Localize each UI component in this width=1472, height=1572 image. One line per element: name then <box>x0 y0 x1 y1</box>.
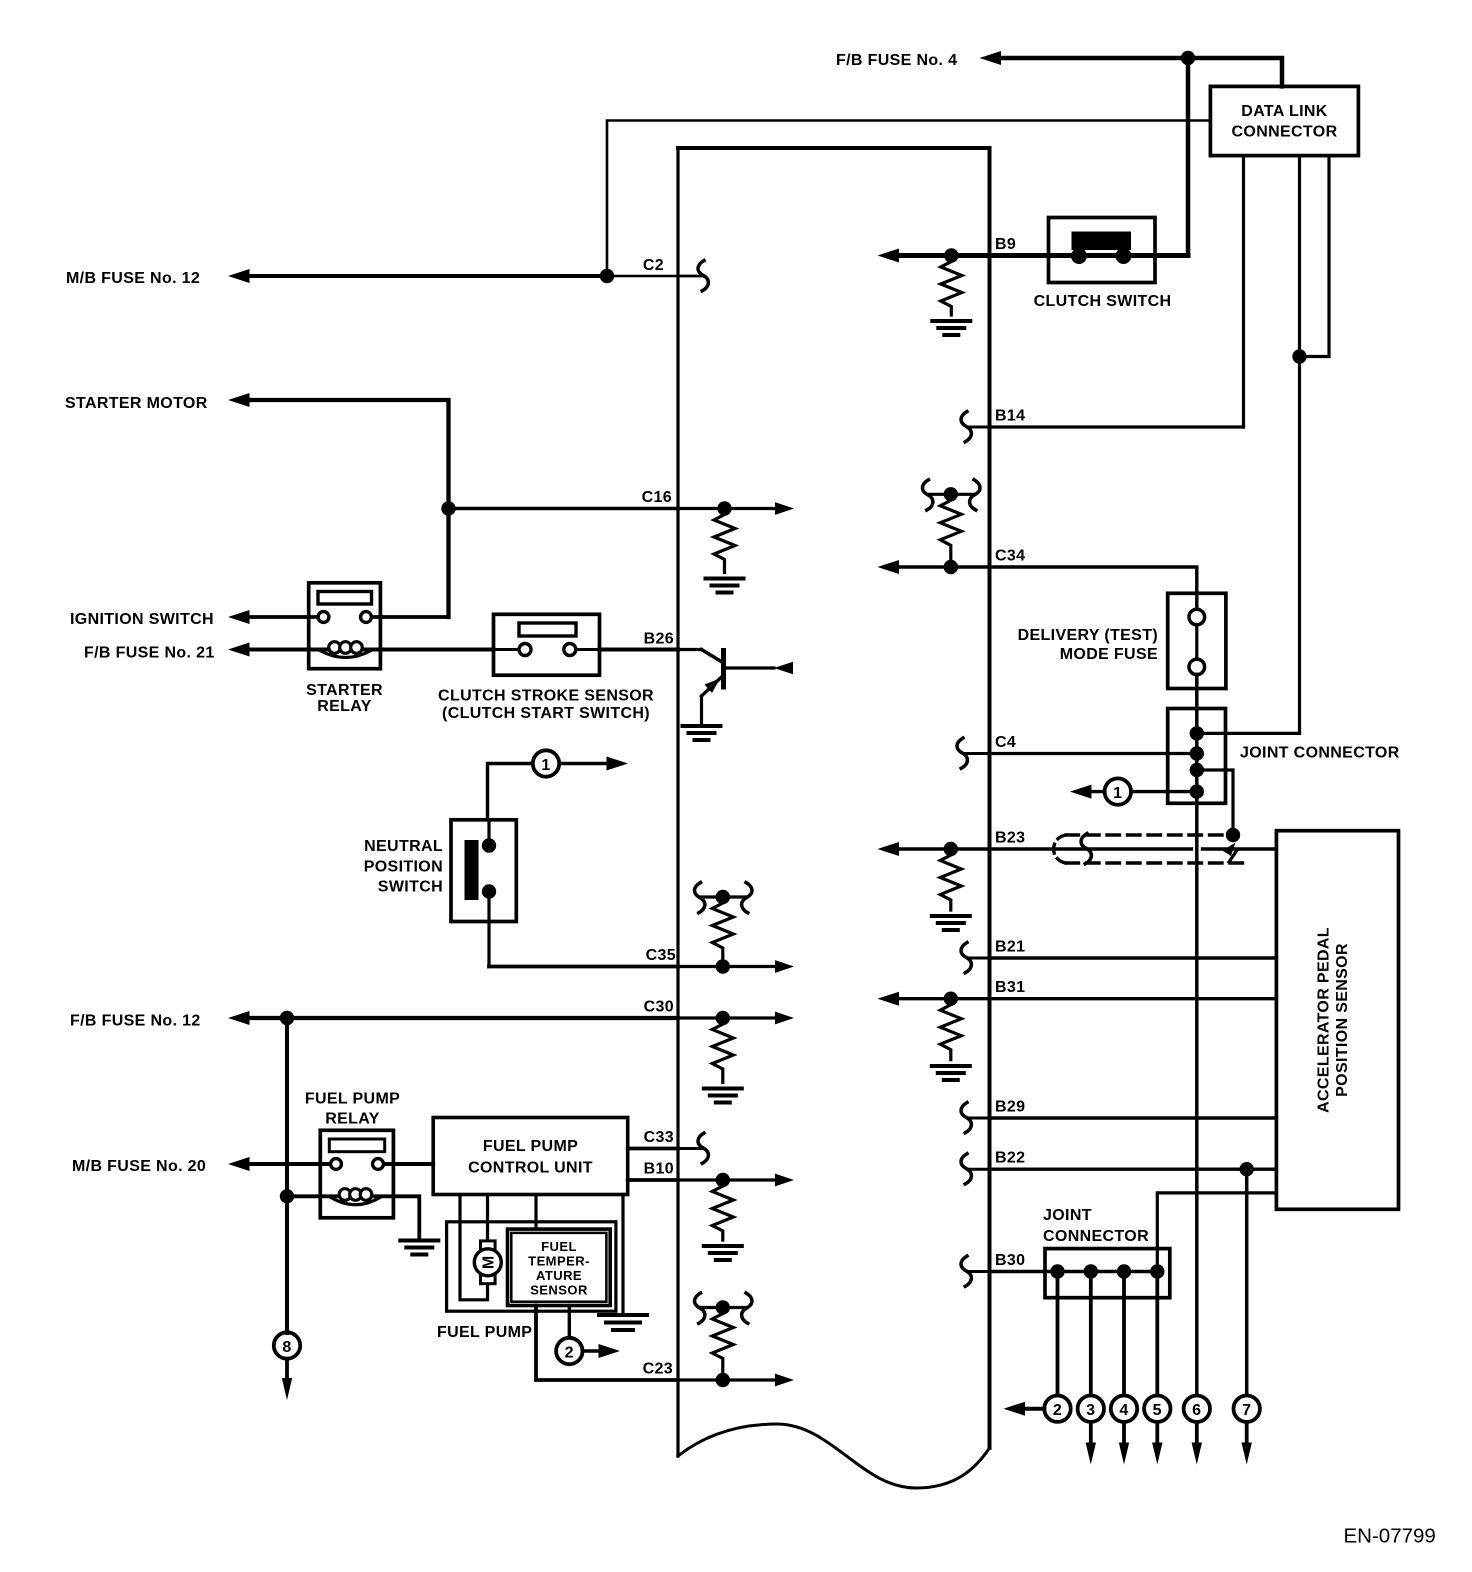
drawing number EN-07799 <box>1344 1525 1436 1548</box>
svg-text:1: 1 <box>1113 785 1122 802</box>
wire junction down to clutch switch <box>1186 58 1191 256</box>
resistor B9 pull-down <box>941 256 962 316</box>
svg-text:M: M <box>480 1255 497 1269</box>
ground C16 <box>706 579 744 593</box>
pin C33 label <box>644 1129 674 1146</box>
node junction C30 resistor <box>716 1011 730 1025</box>
svg-text:CLUTCH SWITCH: CLUTCH SWITCH <box>1034 293 1172 310</box>
svg-text:EN-07799: EN-07799 <box>1344 1525 1436 1548</box>
svg-text:(CLUTCH START SWITCH): (CLUTCH START SWITCH) <box>442 705 650 722</box>
node junction DLC pins 2-3 <box>1292 349 1306 363</box>
wire B26 <box>600 648 702 652</box>
net STARTER MOTOR label <box>65 395 208 412</box>
node junction B31 resistor <box>944 992 958 1006</box>
svg-text:B22: B22 <box>995 1150 1025 1167</box>
wire DLC pin 1 to B14 <box>1242 156 1245 427</box>
relay STARTER RELAY <box>306 583 383 715</box>
connector JOINT CONNECTOR bottom <box>1043 1207 1170 1298</box>
svg-text:FUEL: FUEL <box>541 1239 577 1254</box>
svg-text:8: 8 <box>282 1339 291 1356</box>
node junction B9 resistor <box>944 248 958 262</box>
svg-text:FUEL PUMP: FUEL PUMP <box>483 1138 578 1155</box>
pin B22 stub and connector hook <box>961 1154 990 1184</box>
svg-text:C4: C4 <box>995 734 1016 751</box>
node junction B23 resistor <box>944 842 958 856</box>
pin B9 label <box>995 236 1016 253</box>
svg-text:B21: B21 <box>995 939 1025 956</box>
svg-text:MODE FUSE: MODE FUSE <box>1060 646 1158 663</box>
svg-text:IGNITION SWITCH: IGNITION SWITCH <box>70 611 214 628</box>
node circled 1 left <box>488 750 629 820</box>
sensor CLUTCH STROKE SENSOR <box>438 614 654 722</box>
shield twisted pair B23 <box>1054 835 1245 863</box>
svg-text:B23: B23 <box>995 830 1025 847</box>
ground C30 <box>704 1089 742 1103</box>
svg-text:B10: B10 <box>644 1161 674 1178</box>
resistor B23 pull-down <box>940 849 961 910</box>
net F/B FUSE No. 12 label <box>70 1013 201 1030</box>
pin C2 label <box>643 257 664 274</box>
svg-text:B30: B30 <box>995 1252 1025 1269</box>
inductor fuel pump relay coil <box>331 1189 380 1205</box>
ground B9 <box>932 321 970 335</box>
svg-text:SWITCH: SWITCH <box>378 879 443 896</box>
node junction JC pin 1 <box>1190 726 1204 740</box>
node junction fuel pump relay coil <box>280 1189 294 1203</box>
wire C34 to delivery fuse <box>878 560 1197 610</box>
node junction JC pin 4 <box>1190 784 1204 798</box>
svg-text:STARTER MOTOR: STARTER MOTOR <box>65 395 208 412</box>
wire B9 <box>878 249 1189 263</box>
pin B31 label <box>995 979 1025 996</box>
svg-text:CONNECTOR: CONNECTOR <box>1043 1228 1149 1245</box>
fuse DELIVERY (TEST) MODE FUSE <box>1018 593 1226 688</box>
node junction C23 <box>716 1373 730 1387</box>
pin B22 label <box>995 1150 1025 1167</box>
svg-text:CONTROL UNIT: CONTROL UNIT <box>468 1160 593 1177</box>
switch CLUTCH SWITCH <box>1034 218 1172 311</box>
node circled 1 right <box>1070 778 1197 804</box>
svg-text:NEUTRAL: NEUTRAL <box>364 838 443 855</box>
wire C4 <box>990 752 1197 755</box>
svg-text:C34: C34 <box>995 548 1025 565</box>
pin C4 stub and connector hook <box>957 738 990 768</box>
wire F/B FUSE No.21 to clutch stroke sensor <box>228 643 494 657</box>
node circled 3 <box>1078 1272 1104 1465</box>
wire control unit to motor top <box>486 1195 489 1241</box>
wire B23 <box>878 842 1277 856</box>
pin B30 label <box>995 1252 1025 1269</box>
svg-text:C30: C30 <box>644 999 674 1016</box>
svg-text:POSITION: POSITION <box>364 859 443 876</box>
pin B23 label <box>995 830 1025 847</box>
svg-text:B9: B9 <box>995 236 1016 253</box>
wire joint connector down to circled 6 <box>1195 803 1199 1395</box>
node circled 6 <box>1184 1396 1210 1465</box>
svg-text:B31: B31 <box>995 979 1025 996</box>
node circled 7 <box>1234 1396 1260 1465</box>
wire fuse 12 branch down <box>285 1018 289 1333</box>
ground fuel pump relay coil <box>400 1241 438 1255</box>
ground B10 <box>704 1246 742 1260</box>
motor M fuel pump <box>474 1241 501 1284</box>
wire B29 <box>990 1116 1277 1119</box>
svg-text:M/B FUSE No. 20: M/B FUSE No. 20 <box>72 1158 206 1175</box>
node junction JC2 pin 2 <box>1084 1264 1098 1278</box>
net IGNITION SWITCH label <box>70 611 214 628</box>
svg-text:C2: C2 <box>643 257 664 274</box>
resistor C34 pull-up <box>940 494 961 560</box>
pin B30 stub and connector hook <box>961 1256 990 1286</box>
node circled 2 fuel temp output <box>556 1306 620 1365</box>
svg-text:C35: C35 <box>646 947 676 964</box>
svg-text:B14: B14 <box>995 408 1025 425</box>
switch NEUTRAL POSITION SWITCH <box>364 820 517 967</box>
ground transistor emitter <box>683 726 721 740</box>
node junction C16 resistor <box>717 501 731 515</box>
pin B21 stub and connector hook <box>961 943 990 973</box>
wire thin line C2 to DLC <box>607 121 1210 277</box>
pin B14 stub and connector hook <box>961 412 990 442</box>
wire joint connector to DLC pin 2 <box>1197 732 1300 735</box>
net F/B FUSE No. 21 label <box>84 645 215 662</box>
svg-text:B26: B26 <box>644 631 674 648</box>
node junction C16 <box>441 501 455 515</box>
wire B21 <box>990 956 1277 959</box>
svg-text:F/B FUSE No. 21: F/B FUSE No. 21 <box>84 645 215 662</box>
svg-text:F/B FUSE No. 12: F/B FUSE No. 12 <box>70 1013 201 1030</box>
svg-text:CONNECTOR: CONNECTOR <box>1232 124 1338 141</box>
pin B10 label <box>644 1161 674 1178</box>
resistor C30 pull-down <box>712 1018 733 1083</box>
wire M/B FUSE No.12 to C2 <box>228 269 678 283</box>
pin C34 label <box>995 548 1025 565</box>
svg-text:C33: C33 <box>644 1129 674 1146</box>
pin C35 label <box>646 947 676 964</box>
svg-text:TEMPER-: TEMPER- <box>528 1254 590 1269</box>
svg-text:SENSOR: SENSOR <box>530 1283 588 1298</box>
wire F/B FUSE No.12 C30 <box>228 1011 794 1025</box>
svg-text:3: 3 <box>1086 1402 1095 1419</box>
resistor C23 pull-up <box>712 1308 733 1375</box>
node circled 4 <box>1111 1272 1137 1465</box>
svg-text:5: 5 <box>1153 1402 1162 1419</box>
wire M/B FUSE No.20 <box>228 1157 433 1171</box>
svg-text:ACCELERATOR PEDAL: ACCELERATOR PEDAL <box>1316 927 1333 1113</box>
resistor B31 pull-down <box>940 999 961 1060</box>
net F/B FUSE No. 4 label <box>836 52 957 69</box>
svg-text:2: 2 <box>565 1344 574 1361</box>
node circled 8 <box>274 1332 300 1400</box>
box FUEL PUMP assembly <box>437 1222 616 1341</box>
pin C2 stub and connector hook <box>678 261 708 291</box>
wire C16 <box>449 502 795 515</box>
pin C30 label <box>644 999 674 1016</box>
svg-text:6: 6 <box>1192 1402 1201 1419</box>
ground control unit <box>599 1315 647 1330</box>
pin C16 label <box>642 489 672 506</box>
wire B31 <box>878 992 1277 1006</box>
svg-text:JOINT CONNECTOR: JOINT CONNECTOR <box>1240 745 1400 762</box>
node junction F/B12 branch <box>280 1011 294 1025</box>
node junction C34 <box>944 560 958 574</box>
sensor FUEL TEMPERATURE SENSOR <box>508 1229 611 1305</box>
pin C23 label <box>643 1361 673 1378</box>
node junction shield drain <box>1223 828 1241 862</box>
pin B26 label <box>644 631 674 648</box>
svg-text:FUEL PUMP: FUEL PUMP <box>305 1091 400 1108</box>
ground B23 <box>932 916 970 930</box>
node junction JC pin 2 <box>1190 746 1204 760</box>
wire fuel pump relay coil to ground <box>287 1196 419 1238</box>
node junction JC2 pin 4 <box>1150 1264 1164 1278</box>
wire DLC pin 2 down to joint connector <box>1298 156 1301 734</box>
svg-text:4: 4 <box>1119 1402 1128 1419</box>
pin C4 label <box>995 734 1016 751</box>
svg-text:B29: B29 <box>995 1099 1025 1116</box>
net M/B FUSE No. 12 label <box>66 270 200 287</box>
node junction F/B4 to clutch switch <box>1181 51 1195 65</box>
connector jumper pair above C23 <box>694 1293 752 1323</box>
node circled 2 joint connector <box>1004 1272 1071 1422</box>
wire DLC pin 3 joining pin 2 <box>1300 156 1330 357</box>
wire F/B FUSE No.4 <box>980 51 1283 86</box>
svg-text:RELAY: RELAY <box>317 698 372 715</box>
unit FUEL PUMP CONTROL UNIT <box>433 1118 628 1195</box>
svg-text:C16: C16 <box>642 489 672 506</box>
wire C35 <box>489 960 794 973</box>
ECM box (engine control module) <box>678 148 990 1488</box>
wire sensor to bottom joint connector <box>1157 1193 1276 1272</box>
node junction C2 <box>600 269 614 283</box>
wire B22 <box>990 1167 1277 1170</box>
wire C33 <box>628 1133 709 1163</box>
wire C23 <box>536 1306 794 1387</box>
wire control unit right pin to ground <box>621 1195 624 1314</box>
node junction B22 branch <box>1240 1162 1254 1176</box>
wire B14 to DLC <box>990 425 1244 428</box>
relay FUEL PUMP RELAY <box>305 1091 400 1218</box>
wire control unit to fuel temperature sensor <box>534 1195 537 1230</box>
pin B29 label <box>995 1099 1025 1116</box>
svg-text:M/B FUSE No. 12: M/B FUSE No. 12 <box>66 270 200 287</box>
connector hook B23 shield left <box>1081 834 1091 864</box>
svg-text:RELAY: RELAY <box>325 1111 380 1128</box>
wire IGNITION SWITCH to starter relay <box>228 610 449 624</box>
node junction JC2 pin 1 <box>1050 1264 1064 1278</box>
svg-text:JOINT: JOINT <box>1043 1207 1092 1224</box>
resistor B10 pull-down <box>712 1180 733 1240</box>
svg-text:2: 2 <box>1053 1402 1062 1419</box>
svg-text:7: 7 <box>1242 1402 1251 1419</box>
node circled 5 <box>1144 1272 1170 1465</box>
connector JOINT CONNECTOR top <box>1168 709 1400 804</box>
connector DATA LINK CONNECTOR box <box>1210 86 1358 155</box>
net M/B FUSE No. 20 label <box>72 1158 206 1175</box>
wire B30 <box>990 1270 1158 1273</box>
connector jumper pair above C34 <box>922 480 980 510</box>
node junction JC pin 3 <box>1190 763 1204 777</box>
svg-text:POSITION SENSOR: POSITION SENSOR <box>1334 943 1351 1097</box>
sensor ACCELERATOR PEDAL POSITION SENSOR <box>1276 831 1398 1210</box>
wire B10 <box>628 1174 794 1187</box>
wire fuse to joint connector <box>1195 674 1199 803</box>
svg-text:C23: C23 <box>643 1361 673 1378</box>
resistor C35 pull-up <box>712 897 733 961</box>
svg-text:F/B FUSE No. 4: F/B FUSE No. 4 <box>836 52 957 69</box>
node junction B10 resistor <box>716 1173 730 1187</box>
wire STARTER MOTOR <box>228 393 449 617</box>
pin B21 label <box>995 939 1025 956</box>
ground B31 <box>932 1066 970 1080</box>
transistor Q1 clutch start input <box>702 650 794 724</box>
wire control unit to fuel pump motor loop <box>460 1195 488 1300</box>
svg-text:ATURE: ATURE <box>536 1268 582 1283</box>
node junction C35 <box>716 959 730 973</box>
pin B29 stub and connector hook <box>961 1103 990 1133</box>
resistor C16 pull-down <box>714 509 735 573</box>
wire joint connector to shield drain <box>1197 770 1233 835</box>
svg-text:STARTER: STARTER <box>306 682 383 699</box>
wire B22 branch down to circled 7 <box>1245 1169 1249 1395</box>
svg-text:CLUTCH STROKE SENSOR: CLUTCH STROKE SENSOR <box>438 688 654 705</box>
svg-text:DATA LINK: DATA LINK <box>1241 103 1327 120</box>
svg-text:1: 1 <box>541 757 550 774</box>
svg-text:DELIVERY (TEST): DELIVERY (TEST) <box>1018 627 1158 644</box>
node junction JC2 pin 3 <box>1117 1264 1131 1278</box>
connector jumper pair above C35 <box>694 883 752 913</box>
svg-text:FUEL PUMP: FUEL PUMP <box>437 1324 532 1341</box>
pin B14 label <box>995 408 1025 425</box>
